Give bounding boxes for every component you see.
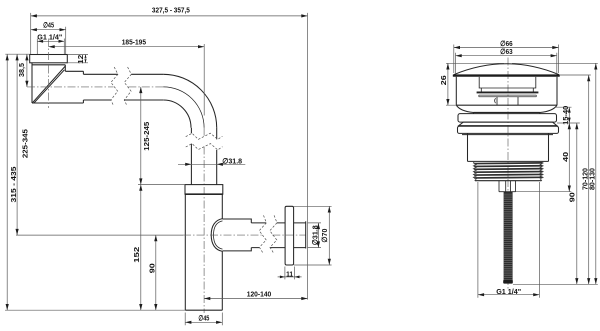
elbow vertical centerline — [48, 39, 50, 109]
pipe break zigzag 2 — [124, 67, 131, 106]
plug bar thick — [477, 91, 539, 93]
plug stem — [497, 97, 518, 105]
svg-text:80-130: 80-130 — [588, 168, 597, 190]
pipe bend center arc — [163, 87, 204, 128]
vertical pipe walls — [191, 128, 216, 185]
rod nut — [499, 181, 516, 192]
dim 120-140 — [204, 289, 307, 300]
outlet collar — [223, 219, 252, 251]
cap dome — [454, 64, 559, 75]
svg-text:125-245: 125-245 — [142, 122, 151, 151]
svg-text:90: 90 — [148, 263, 157, 273]
dim G1 1/4 inch — [37, 32, 64, 54]
dim 125-245 — [139, 87, 151, 185]
trap outlet dome inner line — [214, 221, 223, 249]
svg-text:∅31.8: ∅31.8 — [310, 225, 319, 245]
svg-text:225-345: 225-345 — [20, 129, 29, 158]
dim 26 — [439, 63, 504, 105]
outlet break zigzag 2 — [270, 215, 277, 252]
outlet centerline — [183, 234, 306, 236]
svg-text:120-140: 120-140 — [247, 289, 272, 298]
mounting flange — [458, 126, 559, 133]
pipe behind wall flange — [294, 223, 306, 248]
dim 15-40 — [556, 106, 572, 125]
trap ring top extension — [138, 184, 185, 186]
svg-text:∅63: ∅63 — [500, 47, 513, 56]
svg-text:G1 1/4": G1 1/4" — [496, 287, 521, 296]
dim 315 - 435 — [5, 54, 185, 310]
pipe end lip — [305, 221, 307, 248]
trap outlet dome bulge — [211, 219, 222, 252]
svg-text:12: 12 — [76, 55, 85, 64]
wall flange disc — [285, 206, 294, 265]
svg-text:G1 1/4": G1 1/4" — [37, 32, 62, 41]
dim Ø45 bottom — [185, 313, 222, 326]
dim 40 — [516, 123, 572, 192]
svg-text:11: 11 — [286, 269, 293, 278]
top gasket ring — [458, 114, 557, 123]
pipe bend outer arc — [163, 74, 216, 127]
dim Ø31.8 vertical pipe — [178, 156, 245, 166]
dim 327,5-357,5 — [31, 6, 308, 300]
dim 185-195 — [49, 38, 205, 116]
stem clip arc — [495, 98, 496, 103]
svg-text:40: 40 — [561, 152, 570, 162]
middle washer trapezoid — [459, 122, 557, 126]
flange top extension left — [5, 53, 29, 55]
svg-text:152: 152 — [132, 247, 141, 263]
dim Ø45 top — [31, 21, 66, 55]
svg-text:90: 90 — [568, 192, 577, 202]
dim Ø66 — [454, 39, 559, 73]
dim 12 — [67, 55, 88, 64]
dim Ø70 rotated — [294, 206, 332, 265]
plug plate — [479, 95, 537, 97]
pipe bend inner arc — [163, 100, 191, 128]
vertical pipe break zigzag 2 — [186, 144, 223, 150]
svg-text:38,5: 38,5 — [17, 63, 26, 77]
dim 152 — [132, 185, 142, 311]
elbow body — [32, 63, 83, 103]
dim 225-345 — [16, 54, 184, 235]
dim G1 1/4 inch right view — [478, 182, 540, 298]
pipe break zigzag 1 — [111, 67, 118, 106]
dim Ø31.8 outlet rotated — [308, 223, 322, 248]
svg-text:∅70: ∅70 — [320, 229, 329, 243]
vertical pipe break zigzag 1 — [186, 133, 223, 139]
horizontal pipe walls — [83, 74, 163, 100]
cap rim thick band — [453, 74, 560, 76]
dim 80-130 — [512, 63, 598, 284]
svg-text:26: 26 — [439, 75, 448, 85]
pipe horizontal centerline — [27, 86, 163, 88]
cap body sides — [456, 77, 557, 106]
washer top extension — [557, 122, 580, 124]
dim 70-120 — [560, 75, 591, 284]
svg-text:∅45: ∅45 — [43, 21, 54, 30]
dim Ø63 — [456, 47, 557, 74]
outlet break zigzag 1 — [259, 215, 266, 252]
threaded rod knurled — [503, 192, 513, 284]
dim 11 — [278, 267, 302, 280]
trap ring bottom thick line — [185, 193, 223, 195]
plug step — [481, 88, 533, 92]
threaded section — [473, 162, 543, 181]
funnel taper — [456, 105, 557, 113]
svg-text:15-40: 15-40 — [561, 106, 570, 125]
svg-text:∅31.8: ∅31.8 — [222, 156, 242, 165]
drain centerline — [507, 58, 509, 289]
wall elbow flange — [30, 55, 68, 63]
trap body — [185, 194, 222, 310]
svg-text:315 - 435: 315 - 435 — [9, 167, 18, 203]
plug cylinder inside cap — [479, 77, 536, 88]
svg-text:∅45: ∅45 — [198, 314, 209, 323]
dim 90 right view — [568, 123, 579, 284]
elbow miter diagonal — [32, 66, 65, 103]
trap top ring — [185, 185, 223, 195]
flange lower inner line — [462, 134, 553, 136]
dim 90 left view — [148, 235, 158, 310]
drain body below flange — [468, 133, 549, 161]
dim 38,5 — [17, 54, 29, 87]
trap vertical centerline — [203, 128, 205, 313]
outlet pipe walls — [251, 223, 285, 248]
svg-text:327,5 - 357,5: 327,5 - 357,5 — [152, 6, 190, 15]
svg-text:185-195: 185-195 — [122, 38, 146, 47]
